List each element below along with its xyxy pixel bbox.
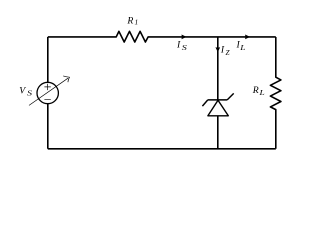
svg-text:S: S	[27, 89, 33, 97]
svg-text:I: I	[220, 45, 225, 56]
svg-text:L: L	[258, 89, 265, 97]
svg-text:L: L	[239, 44, 246, 52]
svg-text:Z: Z	[226, 49, 231, 57]
svg-text:V: V	[19, 86, 26, 97]
svg-text:R: R	[126, 16, 133, 27]
svg-text:I: I	[176, 40, 181, 51]
svg-text:R: R	[252, 85, 259, 96]
svg-text:1: 1	[135, 18, 139, 27]
svg-text:S: S	[182, 44, 188, 52]
